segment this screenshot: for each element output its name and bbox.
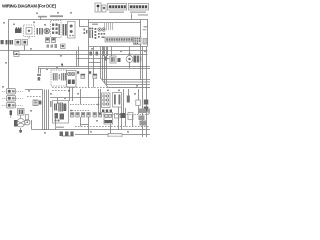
svg-text:WIRING DIAGRAM (For DCE): WIRING DIAGRAM (For DCE) — [2, 4, 57, 9]
